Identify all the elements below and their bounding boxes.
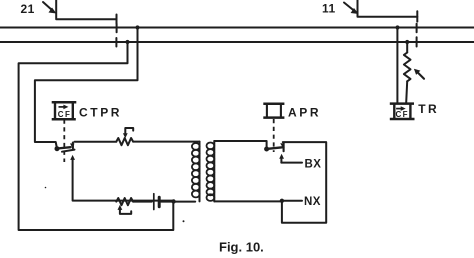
svg-text:CF: CF (396, 110, 409, 119)
svg-text:CTPR: CTPR (79, 105, 122, 119)
svg-text:TR: TR (418, 102, 439, 116)
svg-text:21: 21 (21, 2, 35, 16)
svg-text:NX: NX (304, 196, 321, 208)
svg-text:11: 11 (322, 2, 336, 16)
svg-text:APR: APR (288, 105, 321, 119)
svg-text:BX: BX (305, 158, 322, 170)
svg-text:Fig. 10.: Fig. 10. (219, 239, 264, 254)
svg-text:CF: CF (58, 110, 71, 119)
